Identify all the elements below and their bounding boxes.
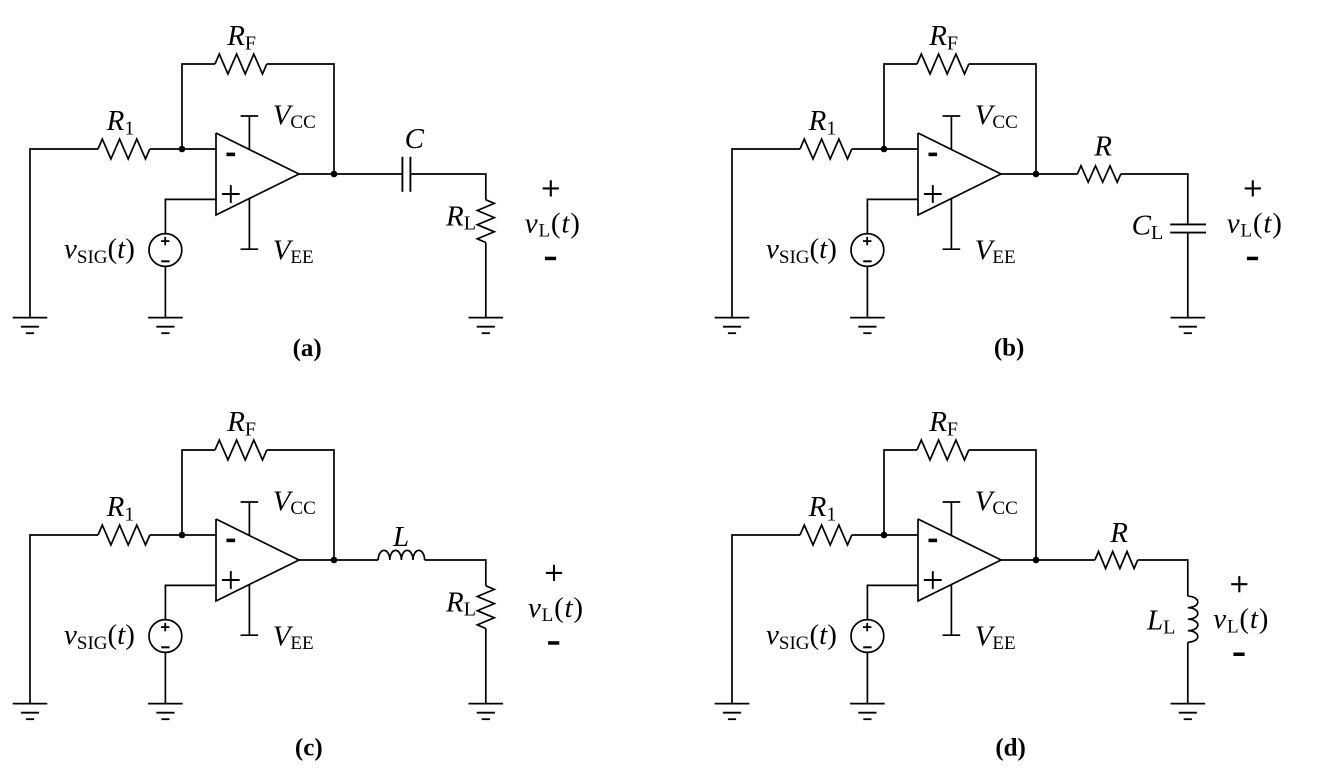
svg-text:VEE: VEE [273, 235, 314, 269]
svg-text:vSIG(t): vSIG(t) [766, 233, 837, 268]
circuit (d): wire: feedback top to output node, right vertical segment [969, 450, 1036, 560]
circuit (b): wire: input from ground to R1, left vertical segment [732, 149, 800, 318]
circuit (a): ground: input reference [13, 318, 48, 334]
circuit (d): load inductor LL [1188, 596, 1198, 642]
svg-text:vL(t): vL(t) [528, 592, 584, 626]
circuit (c): output - polarity mark [548, 641, 559, 645]
circuit (a): resistor RF (feedback) [215, 54, 267, 74]
circuit (a): wire: op-amp output to capacitor C [299, 173, 402, 175]
circuit (b): op-amp inverting input marker (-) [929, 153, 938, 157]
circuit (a): resistor R1 [98, 139, 150, 159]
svg-text:LL: LL [1146, 605, 1175, 639]
circuit (b): power VCC stub [943, 116, 961, 150]
circuit (b): op-amp [918, 133, 1001, 215]
circuit (a): power VEE stub [241, 199, 259, 250]
circuit (c): load resistor RL [477, 586, 494, 629]
circuit (a): wire: input from ground to R1, left vertical segment [30, 149, 98, 318]
svg-text:vL(t): vL(t) [1213, 603, 1269, 637]
circuit (d): wire: R1 to inverting input [852, 534, 918, 536]
circuit (b): ground: load reference [1171, 318, 1206, 334]
circuit (d): source polarity - mark [863, 646, 871, 648]
circuit (a): capacitor C (series) [402, 157, 410, 192]
svg-text:VEE: VEE [975, 235, 1016, 269]
circuit (b): ground: input reference [715, 318, 750, 334]
circuit (d): ground: load reference [1171, 704, 1206, 720]
circuit (a): wire: non-inverting input to source [165, 199, 216, 233]
svg-text:(b): (b) [994, 335, 1025, 362]
circuit (b): wire: feedback left vertical and top segment [884, 64, 917, 149]
svg-text:R1: R1 [106, 491, 135, 526]
circuit (c): wire: feedback top to output node, right vertical segment [267, 450, 334, 560]
circuit (a): load resistor RL [477, 200, 494, 243]
svg-text:VCC: VCC [975, 485, 1018, 519]
circuit (a): op-amp inverting input marker (-) [227, 153, 236, 157]
circuit (c): wire: R1 to inverting input [150, 534, 216, 536]
circuit (d): source polarity + mark [863, 623, 871, 631]
circuit (c): resistor RF (feedback) [215, 440, 267, 460]
circuit (c): wire: source to ground [164, 652, 166, 703]
circuit (c): power VEE stub [241, 585, 259, 636]
circuit (c): op-amp [216, 519, 299, 601]
circuit (b): wire: load CL to ground [1187, 233, 1189, 318]
circuit (c): output + polarity mark [546, 565, 562, 581]
circuit (c): resistor R1 [98, 525, 150, 545]
circuit (a): op-amp [216, 133, 299, 215]
svg-text:(d): (d) [995, 735, 1026, 762]
circuit (b): node: inverting input junction [881, 146, 888, 153]
circuit (b): wire: non-inverting input to source [867, 199, 918, 233]
circuit (b): node: output junction [1033, 171, 1040, 178]
svg-text:R: R [1093, 131, 1112, 163]
circuit (a): op-amp non-inverting input marker (+) [222, 185, 240, 203]
circuit (a): wire: source to ground [164, 266, 166, 317]
circuit (b): wire: resistor R to load [1121, 174, 1188, 224]
svg-text:VEE: VEE [975, 621, 1016, 655]
circuit (a): source VSIG circle [149, 234, 182, 267]
svg-text:vSIG(t): vSIG(t) [64, 619, 135, 654]
circuit (c): ground: input reference [13, 704, 48, 720]
svg-text:VEE: VEE [273, 621, 314, 655]
svg-text:VCC: VCC [273, 485, 316, 519]
circuit (b): load capacitor CL [1170, 224, 1206, 232]
circuit (c): wire: load RL to ground [485, 629, 487, 704]
circuit (a): source polarity - mark [161, 260, 169, 262]
svg-text:RL: RL [445, 201, 476, 235]
circuit (b): source polarity - mark [863, 260, 871, 262]
svg-text:VCC: VCC [975, 99, 1018, 133]
circuit (d): wire: feedback left vertical and top segment [884, 450, 917, 535]
svg-text:vSIG(t): vSIG(t) [766, 619, 837, 654]
circuit (c): node: inverting input junction [179, 532, 186, 539]
svg-text:RL: RL [445, 587, 476, 621]
circuit (a): output + polarity mark [543, 180, 559, 196]
circuit (c): source VSIG circle [149, 620, 182, 653]
svg-text:R1: R1 [106, 105, 135, 140]
circuit (d): wire: input from ground to R1, left vertical segment [732, 535, 800, 704]
circuit (c): power VCC stub [241, 502, 259, 536]
svg-text:C: C [405, 123, 425, 155]
circuit (d): power VEE stub [943, 585, 961, 636]
circuit (b): source VSIG circle [851, 234, 884, 267]
circuit (d): node: output junction [1033, 557, 1040, 564]
circuit (c): wire: feedback left vertical and top segment [182, 450, 215, 535]
circuit (d): wire: non-inverting input to source [867, 585, 918, 619]
svg-text:R1: R1 [808, 491, 837, 526]
circuit (b): power VEE stub [943, 199, 961, 250]
circuit (d): op-amp non-inverting input marker (+) [924, 571, 942, 589]
circuit (b): resistor R1 [800, 139, 852, 159]
circuit (d): wire: op-amp output to resistor R [1001, 559, 1095, 561]
circuit (b): op-amp non-inverting input marker (+) [924, 185, 942, 203]
svg-text:vL(t): vL(t) [1227, 207, 1283, 241]
circuit (c): op-amp inverting input marker (-) [227, 539, 236, 543]
svg-text:vSIG(t): vSIG(t) [64, 233, 135, 268]
circuit (d): wire: load LL to ground [1187, 642, 1189, 703]
circuit (b): wire: feedback top to output node, right vertical segment [969, 64, 1036, 174]
circuit (d): wire: resistor R to load [1138, 560, 1188, 596]
circuit (a): wire: R1 to inverting input [150, 148, 216, 150]
circuit (c): inductor L (series) [378, 550, 424, 560]
circuit (a): power VCC stub [241, 116, 259, 150]
circuit (a): wire: feedback left vertical and top segment [182, 64, 215, 149]
circuit (c): source polarity + mark [161, 623, 169, 631]
svg-text:RF: RF [928, 20, 958, 55]
circuit (a): ground: source reference [148, 318, 183, 334]
circuit (a): node: inverting input junction [179, 146, 186, 153]
circuit (d): power VCC stub [943, 502, 961, 536]
circuit (d): output + polarity mark [1231, 576, 1247, 592]
svg-text:vL(t): vL(t) [525, 207, 581, 241]
svg-text:VCC: VCC [273, 99, 316, 133]
circuit (d): op-amp inverting input marker (-) [929, 539, 938, 543]
circuit (c): wire: op-amp output to inductor L [299, 559, 378, 561]
circuit (c): node: output junction [331, 557, 338, 564]
circuit (c): op-amp non-inverting input marker (+) [222, 571, 240, 589]
circuit (b): ground: source reference [850, 318, 885, 334]
circuit (c): wire: non-inverting input to source [165, 585, 216, 619]
circuit (a): wire: capacitor C to load [410, 174, 485, 200]
circuit (a): output - polarity mark [545, 257, 556, 261]
svg-text:(a): (a) [293, 335, 322, 362]
svg-text:R1: R1 [808, 105, 837, 140]
circuit (b): wire: R1 to inverting input [852, 148, 918, 150]
circuit (c): wire: input from ground to R1, left vertical segment [30, 535, 98, 704]
svg-text:RF: RF [928, 406, 958, 441]
circuit (b): output - polarity mark [1247, 257, 1258, 261]
circuit (c): wire: inductor L to load [425, 560, 486, 586]
circuit (c): ground: source reference [148, 704, 183, 720]
circuit (a): source polarity + mark [161, 237, 169, 245]
circuit (b): resistor R (series) [1077, 166, 1120, 182]
circuit (d): ground: source reference [850, 704, 885, 720]
circuit (d): resistor RF (feedback) [917, 440, 969, 460]
circuit (b): resistor RF (feedback) [917, 54, 969, 74]
circuit (b): wire: source to ground [866, 266, 868, 317]
circuit (a): wire: feedback top to output node, right vertical segment [267, 64, 334, 174]
circuit (d): op-amp [918, 519, 1001, 601]
circuit (d): wire: source to ground [866, 652, 868, 703]
svg-text:CL: CL [1132, 210, 1164, 244]
svg-text:R: R [1109, 517, 1128, 549]
circuit (d): resistor R1 [800, 525, 852, 545]
svg-text:RF: RF [226, 20, 256, 55]
circuit (c): source polarity - mark [161, 646, 169, 648]
circuit (d): output - polarity mark [1233, 653, 1244, 657]
svg-text:(c): (c) [295, 735, 323, 762]
svg-text:L: L [392, 521, 409, 553]
circuit (d): ground: input reference [715, 704, 750, 720]
circuit (d): resistor R (series) [1095, 552, 1138, 569]
circuit (d): node: inverting input junction [881, 532, 888, 539]
circuit (b): wire: op-amp output to resistor R [1001, 173, 1077, 175]
circuit (a): ground: load reference [469, 318, 504, 334]
circuit (b): source polarity + mark [863, 237, 871, 245]
circuit (d): source VSIG circle [851, 620, 884, 653]
circuit (c): ground: load reference [469, 704, 504, 720]
circuit (a): node: output junction [331, 171, 338, 178]
svg-text:RF: RF [226, 406, 256, 441]
circuit (a): wire: load RL to ground [485, 243, 487, 318]
circuit (b): output + polarity mark [1245, 180, 1261, 196]
